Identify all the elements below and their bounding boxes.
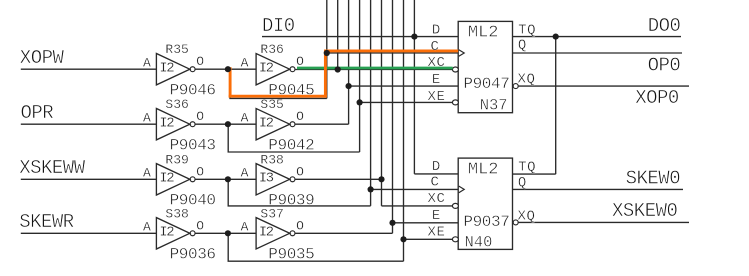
inverter R39 [156, 164, 195, 195]
junction E2 bus7 [389, 220, 395, 226]
junction XE1 bus4 [357, 99, 363, 105]
wire XQ1 / XOP0 [518, 85, 689, 87]
inverter R36 [256, 54, 295, 85]
svg-text:A: A [241, 219, 249, 234]
wire bus9 D [413, 0, 415, 174]
wire R38 output to bus6 [295, 178, 381, 180]
register U1 ML2 P9047 N37 [458, 21, 512, 112]
svg-text:N40: N40 [465, 233, 493, 251]
svg-text:TQ: TQ [518, 22, 536, 38]
svg-text:O: O [296, 109, 304, 124]
pin labels U1 [428, 22, 537, 105]
svg-text:I3: I3 [259, 171, 274, 187]
svg-text:OPR: OPR [21, 102, 54, 124]
bubble U1 XE pin [452, 100, 458, 105]
svg-text:R35: R35 [165, 42, 188, 57]
wire bus8 XE2 [403, 0, 405, 261]
svg-text:DI0: DI0 [262, 15, 295, 37]
wire Q1 / OP0 [513, 52, 683, 54]
svg-text:O: O [196, 109, 204, 124]
svg-text:A: A [241, 110, 249, 125]
svg-text:D: D [432, 23, 441, 39]
svg-text:P9046: P9046 [170, 81, 216, 99]
svg-text:XQ: XQ [518, 71, 536, 87]
pin labels U2 [428, 159, 537, 241]
wire row2 gate1 to gate2 [195, 123, 256, 125]
svg-text:I2: I2 [259, 61, 274, 77]
orange highlight C net [229, 51, 459, 98]
svg-text:P9042: P9042 [268, 136, 314, 154]
junction row1 [225, 66, 231, 72]
wire bus5 C2 [370, 0, 372, 206]
svg-text:P9045: P9045 [268, 81, 314, 99]
svg-text:R36: R36 [260, 42, 283, 57]
svg-text:P9040: P9040 [170, 192, 216, 210]
wire XE2 [404, 238, 453, 240]
svg-text:XSKEWW: XSKEWW [19, 157, 86, 179]
svg-text:C: C [431, 39, 440, 55]
junction XC1 bus2 [335, 66, 341, 72]
wire row3 under-route [228, 179, 370, 206]
svg-text:XQ: XQ [518, 208, 536, 224]
svg-text:XE: XE [428, 225, 446, 241]
svg-text:XOP0: XOP0 [635, 87, 679, 109]
bubble U2 XE pin [452, 237, 458, 242]
clock wedge U1 C pin [459, 50, 464, 57]
wire XC2 [382, 205, 453, 207]
svg-text:P9047: P9047 [463, 75, 509, 93]
green highlight XC net [297, 67, 453, 70]
wire XC1 [295, 69, 453, 71]
svg-text:XSKEW0: XSKEW0 [612, 200, 678, 222]
wire C2 [371, 188, 459, 190]
svg-text:E: E [432, 208, 441, 224]
wire Q2 / SKEW0 [513, 188, 684, 190]
inverter S36 [156, 109, 195, 140]
inverter S37 [256, 218, 295, 249]
wire row4 gate1 to gate2 [195, 232, 256, 234]
svg-text:OP0: OP0 [648, 54, 681, 76]
wire XE1 [360, 101, 453, 103]
svg-text:DO0: DO0 [648, 15, 681, 37]
svg-text:A: A [143, 219, 151, 234]
svg-text:XC: XC [428, 55, 446, 71]
junction E1 bus3 [346, 83, 352, 89]
svg-text:A: A [241, 55, 249, 70]
wire E2 [393, 222, 459, 224]
wire TQ1 / DO0 [513, 36, 682, 38]
inverter R35 [156, 54, 195, 85]
wire bus6 XC2 [381, 0, 383, 206]
svg-text:O: O [196, 164, 204, 179]
wire TQ2 [513, 173, 556, 175]
junction R38out bus6 [378, 176, 384, 182]
junction D1 bus9 [411, 34, 417, 40]
svg-text:R38: R38 [260, 152, 283, 167]
wire TQ tie vertical [555, 37, 557, 175]
svg-text:S35: S35 [260, 97, 283, 112]
svg-text:R39: R39 [165, 152, 188, 167]
svg-text:P9039: P9039 [268, 192, 314, 210]
svg-text:ML2: ML2 [468, 161, 499, 180]
svg-text:O: O [296, 54, 304, 69]
wire XOPW input [21, 68, 157, 70]
bubble U1 XC pin [452, 67, 458, 72]
svg-text:P9043: P9043 [170, 136, 216, 154]
svg-text:SKEWR: SKEWR [19, 211, 74, 233]
svg-text:C: C [431, 174, 440, 190]
inverter S35 [256, 109, 295, 140]
svg-text:N37: N37 [480, 96, 508, 114]
label A pins [143, 55, 249, 234]
wire bus1 C [326, 0, 328, 98]
junction row3 [225, 176, 231, 182]
junction C2 bus5 [368, 186, 374, 192]
svg-text:Q: Q [518, 37, 527, 53]
inverter R38 [256, 164, 295, 195]
svg-text:A: A [143, 55, 151, 70]
wire D2 [414, 173, 458, 175]
svg-text:O: O [296, 218, 304, 233]
inverter S38 [156, 218, 195, 249]
clock wedge U2 C pin [459, 186, 464, 193]
wire OPR input [21, 123, 157, 125]
svg-text:O: O [196, 54, 204, 69]
svg-text:D: D [432, 159, 441, 175]
svg-text:I2: I2 [159, 116, 174, 132]
svg-text:A: A [143, 110, 151, 125]
svg-text:S36: S36 [165, 97, 188, 112]
bubble U1 XQ pin [513, 84, 518, 89]
svg-text:TQ: TQ [518, 159, 536, 175]
svg-text:SKEW0: SKEW0 [626, 168, 681, 190]
wire bus3 E [348, 0, 350, 124]
svg-text:P9035: P9035 [268, 246, 314, 264]
svg-text:P9036: P9036 [170, 246, 216, 264]
wire bus2 XC [337, 0, 339, 69]
junction row4 [225, 230, 231, 236]
bubble U2 XC pin [452, 203, 458, 208]
svg-text:P9037: P9037 [463, 213, 509, 231]
wire row2 under-route [228, 124, 359, 152]
svg-text:I2: I2 [159, 171, 174, 187]
svg-text:I2: I2 [259, 116, 274, 132]
junction XE2 bus8 [400, 236, 406, 242]
wire S37 output to bus7 [295, 232, 392, 234]
wire XSKEWW input [21, 178, 157, 180]
svg-text:XE: XE [428, 89, 446, 105]
wire C1 [327, 52, 458, 54]
svg-text:XC: XC [428, 191, 446, 207]
svg-text:I2: I2 [259, 225, 274, 241]
svg-text:E: E [432, 72, 441, 88]
wire SKEWR input [21, 232, 157, 234]
svg-text:A: A [241, 165, 249, 180]
bubble U2 XQ pin [513, 220, 518, 225]
wire bus7 E2 [392, 0, 394, 233]
wire row3 gate1 to gate2 [195, 178, 256, 180]
wire bus4 XE [359, 0, 361, 152]
wire row1 gate1 to gate2 [195, 68, 256, 70]
junction row2 [225, 121, 231, 127]
svg-text:O: O [196, 218, 204, 233]
svg-text:Q: Q [518, 175, 527, 191]
label O pins [196, 54, 304, 233]
svg-text:XOPW: XOPW [20, 47, 65, 69]
svg-text:O: O [296, 164, 304, 179]
svg-text:A: A [143, 165, 151, 180]
wire E1 from S35 via bus3 [295, 123, 348, 125]
junction C1 bus1 [324, 50, 330, 56]
junction TQ tie [553, 34, 559, 40]
label I2 gates [159, 61, 273, 241]
wire XQ2 / XSKEW0 [518, 221, 689, 223]
svg-text:ML2: ML2 [468, 24, 499, 43]
svg-text:I2: I2 [159, 225, 174, 241]
wire DI0 / D1 [262, 36, 458, 38]
svg-text:I2: I2 [159, 61, 174, 77]
wire row1 under-route [230, 69, 327, 99]
register U2 ML2 P9037 N40 [458, 158, 512, 249]
wire row4 under-route [228, 233, 403, 261]
